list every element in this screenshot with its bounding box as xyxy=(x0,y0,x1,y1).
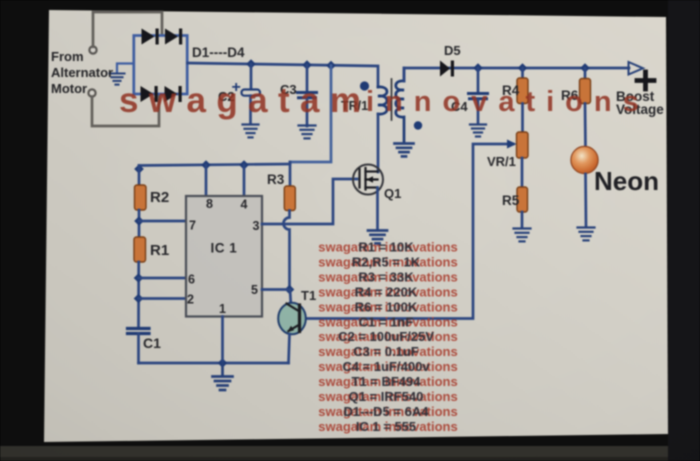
wire: pin5 node to T1 collector xyxy=(290,290,291,307)
ground (main, below pin1) xyxy=(213,363,233,390)
node: pin8 junction xyxy=(201,160,211,170)
wire: main DC bus from bridge to primary corner xyxy=(188,63,379,87)
node: input lower terminal xyxy=(88,89,95,96)
mosfet Q1 xyxy=(353,165,383,195)
node: pin2 junction xyxy=(134,294,144,304)
node: C3 junction xyxy=(302,60,312,70)
ground (secondary) xyxy=(395,144,414,157)
diode D2 (bridge top-right) xyxy=(165,29,182,45)
node: pin7 junction xyxy=(134,216,144,226)
node: pin5/T1 junction xyxy=(285,285,295,295)
node: primary phase dot xyxy=(360,81,369,90)
node: secondary phase dot xyxy=(414,121,422,129)
wire: VR/1 to R5 xyxy=(521,158,524,187)
node: bus junction to Vcc drop xyxy=(326,61,336,71)
bridge rectifier box D1-D4 xyxy=(134,36,187,95)
wire: Vcc drop from bus to rail / R3 top xyxy=(290,66,331,163)
label From Alternator Motor xyxy=(51,49,113,96)
diode D5 xyxy=(440,61,454,77)
ground (R5) xyxy=(514,229,531,242)
wire: lower input gray wire to bridge bottom xyxy=(92,95,159,126)
wire: pin6 stub xyxy=(139,277,187,280)
resistor R6 xyxy=(584,68,587,79)
resistor R3 xyxy=(289,162,292,186)
watermark lines (swagatam innovations, repeated) xyxy=(318,240,457,434)
node: C2 junction xyxy=(246,59,256,69)
capacitor C1 xyxy=(128,327,150,330)
plus symbol (output) xyxy=(637,72,654,89)
node: R6 junction xyxy=(580,63,590,73)
wire: pin3 to Q1 gate xyxy=(262,179,357,224)
diode D3 (bridge bottom-left) xyxy=(141,86,158,102)
wire: pin2 stub xyxy=(139,297,187,300)
wire: primary bottom to Q1 drain xyxy=(377,114,380,172)
resistor R4 xyxy=(521,68,524,78)
diode D1 (bridge top-left) xyxy=(142,29,159,45)
wire: pin4 stub xyxy=(243,165,246,196)
node: C4 junction xyxy=(473,63,483,73)
node: input upper terminal xyxy=(89,46,96,53)
output arrow (boost voltage) xyxy=(629,62,644,75)
capacitor C3 xyxy=(306,65,309,91)
wire: VR/1 wiper to T1 base xyxy=(304,144,513,319)
wire: bridge left stub to ground xyxy=(117,64,134,73)
bottom ground rail xyxy=(139,362,289,365)
IC1 555 box xyxy=(186,196,262,317)
potentiometer VR/1 xyxy=(517,132,529,158)
node: R4 junction xyxy=(518,63,528,73)
component list with watermark lines xyxy=(318,240,457,434)
resistor R1 xyxy=(134,237,146,262)
node: pin6 junction xyxy=(134,273,144,283)
pin number labels IC1 (8,4,7,3,6,2,5,1) xyxy=(187,197,260,316)
transformer TR/1 secondary winding xyxy=(396,68,404,142)
wire: secondary top to output bus xyxy=(404,68,629,81)
wire: pin8 stub xyxy=(205,165,208,196)
wire: Q1 source to ground xyxy=(376,188,379,230)
wire: R2 to pin7 node xyxy=(138,210,141,237)
transformer core xyxy=(391,79,393,120)
ground (Q1 source) xyxy=(368,231,387,244)
neon lamp xyxy=(571,146,598,173)
ground (C3) xyxy=(299,126,316,139)
wire: pin1 stub xyxy=(221,317,224,364)
resistor R5 xyxy=(517,187,528,212)
node: pin1 ground junction xyxy=(218,358,228,368)
ground (bridge input) xyxy=(110,74,125,85)
component value list text xyxy=(338,240,434,434)
node: rail left junction xyxy=(134,164,144,174)
wire: pin7 stub xyxy=(139,220,186,223)
wire: R3 bottom with hop over pin3 wire, to pin5 node xyxy=(284,211,290,290)
wire: T1 emitter to bottom rail xyxy=(289,334,290,363)
ground (neon) xyxy=(578,228,595,241)
transformer TR/1 primary winding xyxy=(378,87,387,114)
diode D4 (bridge bottom-right) xyxy=(165,86,182,102)
wire: upper input gray wire to bridge top xyxy=(93,12,162,47)
ground (C2) xyxy=(243,125,259,138)
Vcc rail above IC xyxy=(139,164,290,166)
resistor R2 xyxy=(138,166,141,186)
wire: pin5 stub xyxy=(262,288,290,291)
ground (C4) xyxy=(470,125,486,137)
capacitor C2 (electrolytic) xyxy=(250,64,253,89)
transistor T1 xyxy=(278,303,306,335)
capacitor C4 xyxy=(477,68,480,92)
wire: R1 bottom to pin6/pin2/C1 xyxy=(137,262,140,328)
node: pin4 junction xyxy=(239,160,249,170)
